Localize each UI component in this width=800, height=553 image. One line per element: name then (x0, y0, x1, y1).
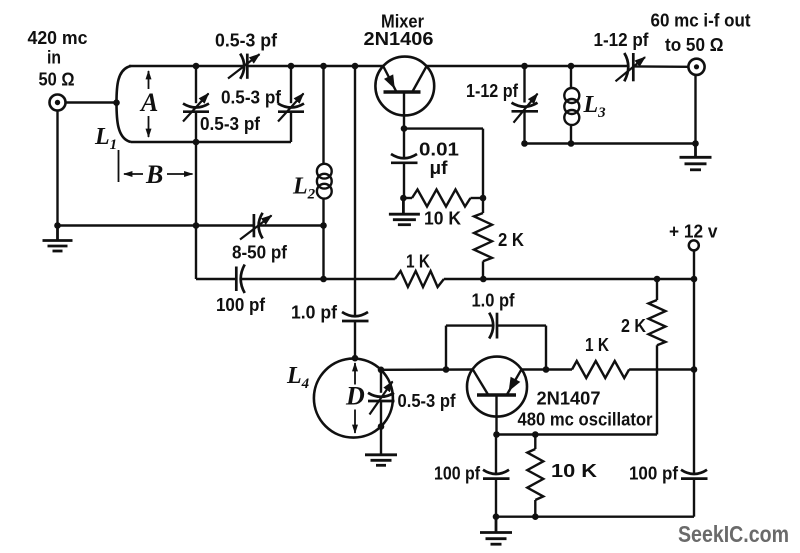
lower rail wire y=279 (196 to +12v corner) (196, 278, 694, 280)
wire series cap to output terminal (633, 65, 688, 68)
node 10K-2K junction (480, 195, 487, 202)
svg-text:100 pf: 100 pf (216, 295, 266, 315)
capacitor 100 pf (lower left) (236, 265, 244, 294)
svg-text:2N1407: 2N1407 (537, 389, 601, 409)
svg-text:1.0 pf: 1.0 pf (291, 303, 338, 323)
node bottom rail 10K (532, 513, 539, 520)
dimension D arrow inside L4 (354, 363, 356, 433)
wire L4 tap to oscillator (381, 368, 473, 371)
node L2 8-50pf rail (320, 222, 327, 229)
node tank bottom x524 (521, 140, 528, 147)
node feedback right (543, 366, 550, 373)
dimension B arrow below L1 (119, 150, 193, 182)
svg-text:in: in (47, 48, 61, 68)
wire L4 tap to ground (380, 427, 382, 454)
resistor 2 K (mixer bias) (474, 129, 492, 279)
wire mixer base to bias corner (404, 127, 483, 129)
wire input down to ground rail (56, 111, 58, 226)
wire oscillator emitter row with 1 K (521, 368, 694, 370)
node input-L1 junction (113, 99, 120, 106)
svg-text:50 Ω: 50 Ω (39, 70, 75, 90)
wire top rail mixer to output tank (426, 65, 628, 67)
svg-text:10 K: 10 K (424, 209, 461, 229)
capacitor 0.01 uf (391, 129, 418, 198)
capacitor 1.0 pf (mixer-L4 coupling) (342, 312, 369, 321)
svg-text:A: A (139, 88, 158, 117)
wire top rail from L1 to top trimmer (129, 65, 244, 67)
wire bypass cap to bottom rail (693, 479, 695, 517)
node feedback left (443, 366, 450, 373)
node top rail x355 (352, 63, 359, 70)
ground oscillator (480, 517, 512, 545)
inductor L2 (317, 66, 332, 279)
vertical wire left tank x=196 (top rail to lower rail) (195, 66, 197, 279)
svg-text:1 K: 1 K (585, 335, 609, 355)
node +12v 1K junction (691, 366, 698, 373)
dimension A arrow inside L1 (148, 71, 150, 137)
oscillator transistor Q2 2N1407 (467, 357, 527, 435)
resistor 10 K (oscillator) (527, 435, 543, 517)
node L4 top (352, 355, 359, 362)
node L4 right tap upper (378, 367, 385, 374)
svg-text:480 mc oscillator: 480 mc oscillator (518, 410, 653, 430)
+12 v terminal (689, 240, 699, 250)
svg-text:L4: L4 (286, 363, 310, 392)
wire output terminal down (694, 75, 696, 144)
node tank bottom output (692, 140, 699, 147)
svg-text:8-50 pf: 8-50 pf (232, 243, 288, 263)
svg-text:1-12 pf: 1-12 pf (466, 81, 519, 101)
node 0.01/10K/ground junction (400, 195, 407, 202)
mixer transistor Q1 2N1406 (375, 57, 434, 129)
svg-text:0.5-3 pf: 0.5-3 pf (398, 391, 457, 411)
variable capacitor 8-50 pf (240, 213, 272, 240)
node tank bottom x571 (568, 140, 575, 147)
resistor 2 K (oscillator, x=657) (649, 279, 666, 435)
svg-text:SeekIC.com: SeekIC.com (678, 521, 789, 547)
wire L1 bottom line (131, 141, 291, 143)
svg-text:1 K: 1 K (406, 252, 430, 272)
variable capacitor 0.5-3 pf left (on x=196) (183, 94, 209, 122)
node L4 right tap lower (378, 423, 385, 430)
svg-text:B: B (145, 160, 163, 189)
inductor L3 (564, 66, 579, 144)
wire oscillator base row y=434.5 (497, 433, 658, 435)
resistor 1 K (oscillator emitter) (572, 361, 629, 378)
variable capacitor 0.5-3 pf right (on x=291) (278, 66, 304, 142)
svg-text:0.01: 0.01 (419, 140, 459, 160)
resistor 1 K (lower rail) (395, 271, 444, 287)
svg-text:100 pf: 100 pf (629, 464, 679, 484)
svg-text:0.5-3 pf: 0.5-3 pf (215, 31, 278, 51)
variable capacitor 1-12 pf (series output) (616, 53, 646, 81)
variable capacitor 1-12 pf (shunt) (512, 66, 539, 144)
resistor 10 K (mixer) (403, 190, 483, 207)
node x196 ground-rail crossing (193, 222, 200, 229)
svg-text:L2: L2 (292, 174, 316, 203)
node L1 bottom right (193, 139, 200, 146)
node top rail x524 (521, 63, 528, 70)
variable capacitor 0.5-3 pf top (on top rail) (228, 54, 260, 79)
node top rail x291 (288, 63, 295, 70)
wire +12v down to bypass cap (693, 251, 695, 474)
inductor L4 (oscillator cavity circle) (314, 359, 393, 438)
svg-text:0.5-3 pf: 0.5-3 pf (200, 114, 261, 134)
wire output tank bottom (525, 142, 696, 144)
ground rail wire y=225.5 with 8-50 pf (58, 224, 324, 226)
svg-text:420 mc: 420 mc (28, 28, 88, 48)
node lower rail x657 (2K top) (654, 276, 661, 283)
node 10K top (532, 431, 539, 438)
node lower rail +12v corner (691, 276, 698, 283)
svg-text:2 K: 2 K (498, 230, 524, 250)
svg-text:+ 12 v: + 12 v (669, 222, 718, 242)
svg-text:2N1406: 2N1406 (364, 29, 434, 49)
capacitor 100 pf (oscillator emitter... base bypass) (483, 435, 510, 517)
svg-text:L1: L1 (94, 124, 117, 153)
svg-text:60 mc i-f out: 60 mc i-f out (651, 11, 751, 31)
node bottom rail ground (493, 513, 500, 520)
node top rail L2 (320, 63, 327, 70)
svg-text:1-12 pf: 1-12 pf (594, 30, 650, 50)
vertical wire x=355 top rail to L4 (354, 66, 356, 359)
svg-text:100 pf: 100 pf (434, 464, 481, 484)
ground L4 (365, 455, 397, 466)
capacitor 1.0 pf oscillator feedback loop (446, 313, 546, 370)
svg-text:L3: L3 (583, 92, 607, 121)
input terminal 420 mc in 50 ohm (50, 95, 66, 111)
svg-text:2 K: 2 K (621, 316, 646, 336)
output terminal 60 mc i-f (688, 59, 704, 75)
node input ground rail junction (54, 222, 61, 229)
node mixer base (401, 125, 408, 132)
svg-text:10 K: 10 K (551, 461, 597, 481)
svg-text:to 50 Ω: to 50 Ω (665, 35, 724, 55)
inductor L1 (cavity line, D-shaped) (117, 66, 132, 142)
node L1 top right (193, 63, 200, 70)
ground output (680, 144, 712, 170)
wire input terminal to L1 (66, 101, 119, 103)
wire top rail trimmer to mixer (247, 65, 383, 67)
svg-text:1.0 pf: 1.0 pf (472, 291, 516, 311)
node oscillator base (493, 431, 500, 438)
capacitor 100 pf (right bypass) (681, 470, 708, 479)
node lower rail x483 (480, 276, 487, 283)
svg-text:0.5-3 pf: 0.5-3 pf (221, 88, 282, 108)
svg-text:D: D (345, 382, 365, 411)
wire bottom rail (496, 516, 694, 518)
ground input (43, 226, 73, 252)
node L2 lower rail (320, 276, 327, 283)
svg-text:μf: μf (430, 158, 449, 178)
variable capacitor 0.5-3 pf (L4 tap) (368, 370, 395, 427)
ground mixer bias (389, 198, 420, 225)
node top rail x571 (568, 63, 575, 70)
